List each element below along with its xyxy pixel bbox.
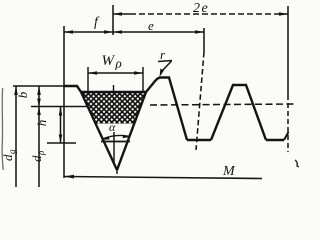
svg-text:g: g <box>7 149 17 154</box>
wire: root-level extension line (left) <box>47 142 76 144</box>
V groove left flank <box>81 92 117 170</box>
root 1 <box>187 139 211 141</box>
svg-text:b: b <box>15 91 30 98</box>
V tip tick <box>116 170 118 174</box>
svg-text:ρ: ρ <box>115 56 122 71</box>
tooth 2 <box>211 85 266 140</box>
tooth 1 (crest with r) <box>146 78 187 141</box>
node 2e dimension <box>113 13 130 15</box>
wire: center extension line at groove <box>112 5 114 35</box>
svg-text:2e: 2e <box>193 1 209 16</box>
wire: groove centerline dashed (tilted) <box>203 28 205 52</box>
V groove right flank <box>117 92 146 170</box>
wire: groove1 short centerline ticks <box>113 85 115 92</box>
node f dimension <box>64 31 113 33</box>
node Wp dimension <box>87 67 89 91</box>
svg-text:e: e <box>148 18 154 33</box>
svg-text:M: M <box>222 164 236 179</box>
node h dimension line <box>60 107 62 144</box>
wire: crest-level extension line (left) <box>13 85 64 87</box>
svg-text:r: r <box>160 47 166 62</box>
svg-text:f: f <box>94 15 100 30</box>
scan artifact right edge <box>295 160 299 167</box>
wire: long left extension line (f / M) <box>63 26 65 178</box>
wire: root line inside V <box>101 141 130 143</box>
node M dimension <box>64 177 262 179</box>
svg-text:α: α <box>109 120 116 134</box>
svg-text:W: W <box>102 53 116 69</box>
scan artifacts left edge <box>2 88 3 170</box>
node dp/b dimension line <box>38 86 40 187</box>
svg-text:ρ: ρ <box>36 150 46 156</box>
wire: pitch line (dash) <box>150 104 297 105</box>
wire: hatch top <box>81 91 146 93</box>
wire: pitch-level extension line (left) <box>31 106 88 108</box>
wire: right extension line <box>287 6 289 95</box>
node e dimension <box>113 31 204 33</box>
rise at right edge <box>284 132 289 140</box>
root 2 <box>266 139 284 141</box>
svg-text:h: h <box>34 120 49 127</box>
svg-text:d: d <box>29 155 44 162</box>
node dg dimension line <box>15 86 17 187</box>
thread profile outline <box>64 86 81 92</box>
hatch fill <box>81 92 146 124</box>
